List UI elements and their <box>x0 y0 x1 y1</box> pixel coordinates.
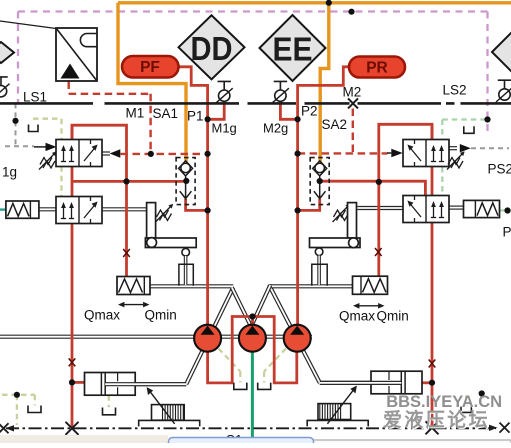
svg-text:Qmax: Qmax <box>84 308 120 323</box>
valve pressure compensator right (RV1) <box>403 140 449 167</box>
lever piston box left <box>179 264 193 286</box>
pilot arrow into RV1 left <box>387 149 403 158</box>
tick marks on red lines <box>69 358 76 366</box>
node X bottom far left <box>0 423 9 433</box>
solenoid coil right <box>307 404 368 427</box>
pilot arrow into LV1 left <box>34 143 57 151</box>
test point M2g <box>272 81 289 103</box>
drain symbol upper left <box>29 125 39 132</box>
node X plugged port M2 <box>348 98 358 108</box>
svg-text:P2: P2 <box>301 104 318 119</box>
test point diamond right edge <box>492 19 511 85</box>
wire bottom case drain centerline <box>6 427 496 429</box>
svg-text:M1: M1 <box>126 106 145 121</box>
wire gray dashed drain left <box>5 103 34 146</box>
svg-text:SA1: SA1 <box>153 106 179 121</box>
wire red PR to P2 column <box>298 67 350 325</box>
wire violet dashed boundary right <box>486 12 488 134</box>
watermark BBS.IYEYA.CN <box>383 393 503 432</box>
wire red stub to left cylinder <box>72 381 84 384</box>
pump charge (center) <box>239 325 266 352</box>
wire red M1g branch <box>208 101 225 119</box>
svg-text:P1: P1 <box>187 109 204 124</box>
wire mechanical right yoke rod <box>269 284 353 288</box>
servo cylinder left <box>85 373 136 396</box>
check valve left (P1 feed) <box>176 158 195 205</box>
wire red left valve feed loop <box>72 125 127 276</box>
svg-text:M2: M2 <box>343 85 362 100</box>
pump P2 (right) <box>284 325 311 352</box>
wire mechanical left strut to pump2 <box>232 287 257 337</box>
test point diamond left edge <box>0 42 14 63</box>
wire red PF to P1 column <box>178 67 208 325</box>
wire green dashed PS2 pilot <box>442 120 487 196</box>
bottom beige strip <box>0 435 168 443</box>
spring box valve2-right <box>464 200 500 217</box>
wire olive dashed drain pump3 <box>264 349 286 383</box>
solenoid coil left <box>139 405 200 427</box>
wire red stub to right cylinder <box>422 381 432 384</box>
wire inlet line to pilot box <box>0 21 56 29</box>
pilot arrow at LV1 right <box>110 149 121 158</box>
lever piston stem left <box>184 256 188 285</box>
lever link circle right <box>315 248 323 256</box>
wire red right cross feed <box>320 181 426 195</box>
node X right column termination <box>426 421 439 434</box>
spring box Qmax left <box>117 277 150 295</box>
port PF <box>122 56 179 78</box>
feedback arrow left <box>147 387 175 424</box>
adjustable spring RV1 <box>447 151 465 169</box>
wire red M2g branch <box>280 101 297 119</box>
test point left edge <box>0 77 10 99</box>
drain symbol under right cylinder <box>461 407 471 413</box>
test point M1g <box>216 81 233 103</box>
spring box Qmin right <box>353 276 388 294</box>
wire red left long column <box>71 125 74 428</box>
wire red right valve feed loop <box>379 124 432 276</box>
wire mechanical pump shaft axis <box>0 335 312 339</box>
svg-text:PS: PS <box>503 225 511 240</box>
wire mechanical valve2-right rod <box>357 206 403 210</box>
tooltip blue box <box>169 438 314 448</box>
adjust range arrow right <box>353 303 385 309</box>
wire red check2 outlet <box>298 199 320 210</box>
wire red dashed SA2 drop <box>352 109 354 154</box>
test point right edge <box>496 80 511 102</box>
wire olive dashed drain pump1 <box>219 349 241 383</box>
node arrowhead bottom left <box>6 425 15 431</box>
wire mechanical spring rod far left <box>39 207 56 211</box>
wire mechanical valve1-right pilot rod <box>449 146 457 150</box>
wire red left cross feed <box>72 180 186 183</box>
adjust range arrow left <box>118 302 150 308</box>
wire mechanical left yoke rod <box>150 284 234 288</box>
check valve right (P2 feed) <box>310 158 329 205</box>
wire red right long column <box>431 124 434 428</box>
adjustable spring right lever <box>333 204 351 222</box>
wire red dashed SA1 run <box>121 153 208 155</box>
swash lever right <box>310 203 361 248</box>
pilot arrow at RV1 right <box>460 144 471 152</box>
swash lever left <box>145 203 196 248</box>
wire green pump2 delivery <box>251 352 254 443</box>
wire olive dashed LS pilot left <box>33 119 62 197</box>
wire olive dashed drain under right cylinder <box>465 396 467 407</box>
wire mechanical left servo rod <box>106 382 186 386</box>
svg-text:SA2: SA2 <box>322 117 348 132</box>
wire olive dashed case drain bottom-left <box>2 395 35 425</box>
drain symbol under left cylinder <box>103 408 116 415</box>
junction dots <box>326 0 332 6</box>
wire olive dashed drain under left cylinder <box>108 395 110 407</box>
node arrowhead bottom right <box>489 425 498 431</box>
wire mechanical right servo rod <box>320 381 404 385</box>
wire red pump loop <box>208 317 297 383</box>
lever piston box right <box>312 264 327 286</box>
wire mechanical left swash diagonal <box>186 288 233 385</box>
lever link circle left <box>182 249 190 257</box>
wire mechanical right strut to pump2 <box>246 285 270 337</box>
wire red dashed SA2 run <box>298 152 388 154</box>
node X bottom far right <box>500 423 510 433</box>
tooltip white bar <box>312 440 511 448</box>
wire red check1 outlet <box>186 199 208 210</box>
svg-text:1g: 1g <box>2 165 17 180</box>
svg-text:BBS.IYEYA.CN: BBS.IYEYA.CN <box>386 393 502 411</box>
wire orange supply left branch <box>118 3 186 163</box>
pump P1 (left) <box>194 325 221 352</box>
svg-text:EE: EE <box>273 30 313 67</box>
wire mechanical valve1-left pilot rod <box>102 151 110 155</box>
drain symbol pump1 <box>234 383 247 390</box>
wire teal stub left edge <box>0 208 6 210</box>
svg-text:爱液压论坛: 爱液压论坛 <box>383 408 490 431</box>
drain symbol upper right <box>464 126 474 133</box>
valve flow control left (LV2) <box>56 197 102 224</box>
drain symbol lower left <box>28 406 41 413</box>
svg-text:DD: DD <box>191 30 233 67</box>
wire green dashed stub right edge <box>500 209 511 211</box>
svg-text:M2g: M2g <box>263 121 288 136</box>
node X left column termination <box>66 422 79 435</box>
wire mechanical valve2-right spring link <box>449 206 463 210</box>
pilot pressure supply box <box>56 28 97 81</box>
svg-text:PF: PF <box>140 59 160 76</box>
wire violet dashed boundary top <box>18 10 488 12</box>
wire orange supply top <box>118 1 511 4</box>
adjustable spring left lever <box>156 204 174 222</box>
wire LS bus line <box>0 102 511 105</box>
test point diamond EE <box>260 15 326 81</box>
wire red pump2 stem <box>251 317 254 327</box>
svg-text:Qmin: Qmin <box>377 309 409 324</box>
wire orange supply right branch <box>320 3 329 163</box>
svg-text:Qmax: Qmax <box>339 309 375 324</box>
wire red dashed SA1 from pilot box <box>69 82 151 155</box>
svg-text:M1g: M1g <box>212 121 237 136</box>
servo cylinder right rod <box>320 381 402 385</box>
feedback arrow right <box>327 386 357 424</box>
svg-text:PR: PR <box>366 60 388 77</box>
port PR <box>349 57 405 78</box>
wire mechanical valve2-left rod <box>101 207 146 211</box>
drain symbol pump3 <box>258 383 271 390</box>
servo cylinder right <box>371 371 422 394</box>
valve flow control right (RV2) <box>403 196 449 223</box>
lever piston stem right <box>317 256 321 286</box>
valve pressure compensator left (LV1) <box>56 140 102 167</box>
adjustable spring LV1 <box>39 151 57 169</box>
servo cylinder left rod <box>105 382 186 386</box>
test point diamond DD <box>179 15 245 79</box>
svg-text:LS1: LS1 <box>23 90 47 105</box>
svg-text:LS2: LS2 <box>443 83 467 98</box>
svg-text:PS2: PS2 <box>488 162 511 177</box>
spring box valve2-left <box>6 201 39 218</box>
svg-text:Qmin: Qmin <box>145 308 177 323</box>
wire gray dashed pilot right <box>471 147 509 149</box>
wire mechanical right swash diagonal <box>269 285 320 383</box>
wire violet dashed boundary left <box>17 12 19 104</box>
